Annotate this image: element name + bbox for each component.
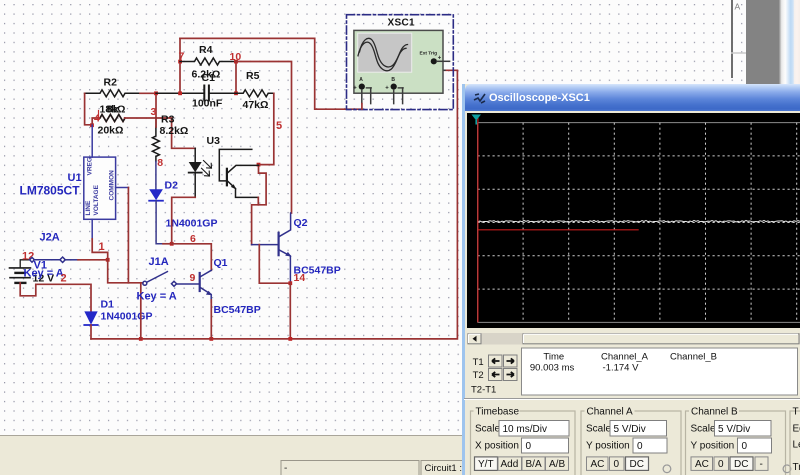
svg-text:A: A — [735, 2, 741, 12]
Timebase group — [471, 406, 576, 475]
svg-text:0: 0 — [637, 441, 643, 452]
svg-text:7: 7 — [179, 51, 185, 63]
Trigger group partial — [790, 407, 800, 475]
wire net7 top loop to scope channel A — [180, 38, 362, 109]
svg-text:Q1: Q1 — [214, 257, 228, 269]
svg-text:Y position: Y position — [586, 441, 630, 452]
svg-text:6: 6 — [190, 233, 196, 245]
wire net7 vertical through R4/C1 left — [179, 38, 181, 93]
svg-text:3: 3 — [151, 106, 157, 118]
svg-text:XSC1: XSC1 — [388, 18, 415, 29]
switch J2A (closed) — [30, 257, 66, 262]
R1 right lead to node 3 — [125, 117, 156, 119]
svg-text:1N4001GP: 1N4001GP — [166, 218, 218, 230]
svg-text:1N4001GP: 1N4001GP — [101, 311, 153, 323]
svg-text:8k: 8k — [107, 104, 119, 116]
svg-text:0: 0 — [614, 459, 620, 470]
svg-text:COMMON: COMMON — [109, 170, 116, 201]
U1 input pin — [91, 125, 93, 157]
wire D1 cathode to rail — [90, 325, 92, 339]
XSC1 terminal B — [385, 77, 403, 92]
U3 phototransistor — [219, 149, 258, 197]
svg-text:U3: U3 — [207, 135, 221, 147]
svg-text:8: 8 — [157, 157, 163, 169]
svg-text:D2: D2 — [165, 180, 179, 192]
resistor R5 — [236, 90, 274, 97]
svg-text:Add: Add — [501, 459, 519, 470]
U3 LED — [189, 148, 202, 197]
svg-text:20kΩ: 20kΩ — [98, 125, 124, 137]
wire D2 cathode down to net6 — [156, 201, 163, 244]
junction dot at U1 input — [90, 123, 94, 127]
readout panel — [522, 348, 798, 395]
XSC1 Ext Trig terminal — [431, 55, 450, 64]
gray area right of canvas — [746, 0, 779, 86]
wire Q2 emitter to bottom rail — [289, 283, 291, 339]
svg-text:Key = A: Key = A — [24, 268, 64, 280]
U1 common pin to node1 — [91, 219, 93, 239]
divider — [464, 398, 800, 400]
transistor Q1 — [200, 270, 213, 302]
svg-text:VOLTAGE: VOLTAGE — [93, 184, 100, 215]
trigger marker — [472, 115, 482, 125]
wire net3 to U3 LED anode — [156, 118, 195, 148]
svg-text:C1: C1 — [202, 72, 216, 84]
U3 LED cathode wire to net — [172, 197, 196, 244]
status bar area — [0, 435, 746, 475]
wire Q2 base-emitter link — [259, 245, 290, 284]
resistor R2 — [85, 90, 156, 97]
voltage regulator U1 box — [84, 157, 116, 219]
T1 T2 controls — [471, 357, 496, 396]
svg-text:14: 14 — [294, 272, 306, 284]
svg-text:AC: AC — [591, 459, 605, 470]
svg-text:2: 2 — [61, 273, 67, 285]
svg-text:Y/T: Y/T — [478, 459, 494, 470]
oscilloscope XSC1 body — [354, 30, 443, 93]
junction dot Q2 emitter — [288, 281, 292, 285]
svg-text:Ext Trig: Ext Trig — [420, 51, 438, 57]
svg-text:-: - — [284, 463, 287, 474]
svg-text:0: 0 — [718, 459, 724, 470]
wire Q1 emitter to rail — [210, 300, 212, 339]
status cell 2 Circuit1 — [421, 461, 481, 475]
wire R3 to D2 — [155, 162, 157, 190]
ext trig wire dark part — [434, 65, 445, 71]
junction dot U3 collector node — [257, 163, 261, 167]
svg-text:Ed: Ed — [793, 424, 800, 435]
node 10 junction + vertical — [235, 62, 237, 94]
wire R2 left to junction — [85, 93, 92, 125]
svg-text:T: T — [793, 407, 799, 418]
junction dot R2/C1 row — [154, 91, 158, 95]
svg-text:Q2: Q2 — [294, 217, 308, 229]
status cell 1 — [281, 461, 419, 475]
net label A vertical line top-right — [731, 0, 746, 78]
diode D2 — [149, 189, 163, 200]
svg-text:5 V/Div: 5 V/Div — [614, 424, 646, 435]
wire net6 to Q1 collector — [172, 244, 212, 270]
U1 output pin wire down to J1A net — [116, 187, 129, 189]
resistor R1 20k — [92, 115, 125, 126]
svg-text:47kΩ: 47kΩ — [243, 99, 269, 111]
right window-edge gradient strip — [779, 0, 800, 86]
svg-text:J1A: J1A — [149, 256, 169, 268]
svg-text:+: + — [353, 86, 357, 92]
node 1 junction — [106, 258, 110, 262]
resistor R4 — [180, 58, 236, 65]
junction dot net6 — [170, 242, 174, 246]
svg-text:J2A: J2A — [40, 232, 60, 244]
wire C1 row — [156, 92, 236, 94]
transistor Q2 — [279, 213, 292, 283]
svg-text:Scale: Scale — [586, 424, 611, 435]
svg-text:DC: DC — [630, 459, 644, 470]
svg-text:Key = A: Key = A — [137, 291, 177, 303]
svg-text:LINE: LINE — [85, 200, 92, 215]
wire J1A to Q1 base — [177, 283, 200, 285]
Channel A group — [581, 406, 681, 475]
battery V1 — [10, 260, 31, 283]
wire red part of R2 right lead — [140, 92, 156, 94]
Oscilloscope-XSC1 window — [462, 84, 800, 475]
svg-text:9: 9 — [190, 272, 196, 284]
svg-text:D1: D1 — [101, 299, 115, 311]
svg-text:T2: T2 — [473, 370, 484, 381]
svg-text:0: 0 — [742, 441, 748, 452]
svg-text:B/A: B/A — [526, 459, 542, 470]
wire U3 emitter to jog — [257, 197, 259, 204]
XSC1 mini screen with sine waves — [358, 33, 412, 72]
resistor R3 vertical — [152, 118, 159, 162]
svg-text:R4: R4 — [199, 44, 213, 56]
wire R5 right down to U3 collector node — [259, 93, 274, 164]
svg-text:Channel B: Channel B — [691, 407, 738, 418]
svg-text:100nF: 100nF — [192, 98, 223, 110]
wire net5 from node10 to Q2 collector — [236, 62, 292, 214]
XSC1 pins — [362, 88, 403, 104]
oscilloscope XSC1 selection box — [347, 15, 454, 110]
junction dots on bottom rail — [139, 337, 143, 341]
svg-text:-: - — [760, 459, 763, 470]
channel A red trace — [478, 118, 639, 323]
diode D1 — [84, 311, 97, 325]
U3 light arrows — [202, 161, 212, 177]
svg-text:Le: Le — [793, 440, 800, 451]
svg-text:BC547BP: BC547BP — [214, 304, 261, 316]
svg-text:+: + — [385, 86, 389, 92]
channel B white trace — [478, 220, 800, 222]
svg-text:Tr: Tr — [793, 462, 800, 473]
svg-text:A/B: A/B — [549, 459, 565, 470]
wire jog from collector node to Q2 base — [252, 165, 267, 245]
svg-text:AC: AC — [695, 459, 709, 470]
wire Q2 base lead — [252, 244, 279, 246]
wire scope A pin to net7 — [361, 104, 363, 110]
svg-text:A: A — [359, 77, 363, 83]
svg-text:R5: R5 — [246, 70, 260, 82]
svg-text:8.2kΩ: 8.2kΩ — [160, 125, 189, 137]
svg-text:90.003 ms: 90.003 ms — [530, 363, 575, 374]
svg-text:1: 1 — [99, 241, 105, 253]
svg-text:B: B — [391, 77, 395, 83]
bottom rail net0 with ext-trig riser — [91, 65, 457, 339]
switch J1A (open) — [143, 272, 177, 287]
junction dot at x180 on C1 row — [178, 91, 182, 95]
svg-text:Channel A: Channel A — [587, 407, 633, 418]
wire node1 down to J1A — [108, 260, 143, 283]
wire node3 vertical from R2 row — [155, 93, 157, 118]
svg-text:Timebase: Timebase — [476, 407, 520, 418]
svg-text:-1.174 V: -1.174 V — [603, 363, 640, 374]
Channel B group — [686, 406, 791, 475]
svg-text:Channel_B: Channel_B — [670, 352, 717, 363]
svg-text:Scale: Scale — [475, 424, 500, 435]
wire battery minus to D1 — [20, 283, 91, 311]
svg-text:X position: X position — [475, 441, 519, 452]
wire J1A junction down to rail — [140, 283, 142, 339]
svg-text:5 V/Div: 5 V/Div — [718, 424, 750, 435]
svg-text:VREG: VREG — [87, 157, 94, 175]
scope grid dashed lines — [478, 123, 800, 323]
capacitor C1 plates — [204, 86, 209, 101]
svg-text:Y position: Y position — [691, 441, 735, 452]
svg-text:R2: R2 — [104, 77, 118, 89]
XSC1 terminal A — [353, 77, 371, 92]
svg-text:LM7805CT: LM7805CT — [20, 184, 81, 198]
svg-text:R3: R3 — [161, 114, 175, 126]
svg-text:Channel_A: Channel_A — [601, 352, 649, 363]
svg-text:Time: Time — [543, 352, 564, 363]
wire J2A to node1 — [65, 259, 78, 261]
svg-text:DC: DC — [734, 459, 748, 470]
svg-text:5: 5 — [276, 120, 282, 132]
node 7 junction — [178, 60, 182, 64]
svg-text:0: 0 — [526, 441, 532, 452]
svg-text:10 ms/Div: 10 ms/Div — [503, 424, 547, 435]
svg-text:+: + — [438, 55, 442, 61]
svg-text:U1: U1 — [68, 172, 82, 184]
svg-text:T1: T1 — [473, 357, 484, 368]
svg-text:T2-T1: T2-T1 — [471, 385, 496, 396]
scrollbar — [467, 333, 800, 345]
scope grid border — [478, 123, 800, 323]
svg-text:Scale: Scale — [691, 424, 716, 435]
